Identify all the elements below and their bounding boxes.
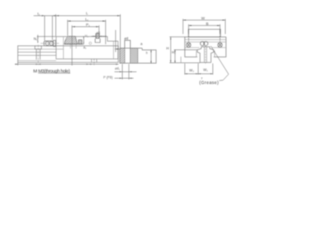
side view rail hole 2 hidden lines under block: [92, 59, 97, 65]
body mid seam lines: [185, 47, 226, 49]
svg-text:B: B: [206, 22, 209, 26]
small ext line at block lower left: [180, 57, 182, 63]
rail section outline: [120, 48, 156, 63]
P1 dimension (top row 3): [72, 25, 99, 65]
svg-text:t₂: t₂: [38, 12, 41, 16]
svg-text:W₁: W₁: [203, 68, 208, 72]
svg-text:⌀d₁: ⌀d₁: [115, 67, 121, 71]
svg-text:W: W: [201, 17, 205, 21]
grease note leader line: [211, 46, 229, 81]
right mounting hole (circle-cross): [218, 29, 222, 47]
svg-text:M: M: [33, 68, 37, 74]
svg-text:L: L: [86, 12, 88, 16]
rail cross-section profile: [197, 47, 213, 63]
H dimension (left of end view): [170, 37, 201, 63]
svg-text:W₂: W₂: [189, 68, 194, 72]
side view block body with stepped top right: [56, 37, 118, 59]
svg-text:⌀d: ⌀d: [124, 36, 128, 40]
hatched end-seal section on block top left: [64, 36, 83, 44]
svg-text:(Grease): (Grease): [199, 80, 219, 85]
side view rail groove lines: [18, 49, 64, 61]
rail hole 1 centerline: [37, 45, 39, 65]
W dimension: [183, 19, 225, 34]
side view rail counterbore hole 1: [35, 46, 42, 60]
hatched section walls: [120, 48, 125, 63]
grease nipple (horizontal, left end): [44, 40, 56, 46]
svg-text:P (P8): P (P8): [103, 75, 112, 79]
svg-text:P₁: P₁: [86, 23, 90, 27]
top small dimension t2 over nipple: [34, 15, 56, 40]
block body: [185, 37, 226, 57]
counterbore upper rect: [125, 40, 131, 48]
svg-text:H: H: [166, 47, 169, 51]
svg-text:H₂: H₂: [85, 34, 89, 38]
svg-text:⌀g: ⌀g: [96, 31, 100, 35]
L1 dimension (top row 2): [68, 20, 106, 45]
svg-text:L₁: L₁: [85, 17, 89, 21]
step height dimension: [151, 50, 152, 63]
counterbore width dimension below middle view: [115, 64, 137, 79]
H1 dimension (left of end view, shorter): [174, 50, 197, 63]
body internal seams: [185, 40, 226, 42]
block recess walls around rail: [196, 51, 214, 57]
side view rail body: [18, 46, 119, 63]
svg-text:a: a: [141, 42, 143, 46]
B dimension: [189, 24, 220, 29]
vertical grease fitting: cup: [95, 39, 100, 43]
left mounting hole (circle-cross): [186, 29, 190, 47]
vertical grease fitting on block top: tip: [96, 34, 100, 39]
svg-text:M3(through hole): M3(through hole): [38, 68, 70, 73]
top plate: [189, 29, 221, 37]
seal section height dimension H2: [83, 36, 84, 44]
gap dimension at block right: [115, 30, 124, 52]
rail bolt hole hidden lines: [204, 46, 206, 65]
grease passage hidden lines below boss: [71, 44, 77, 49]
nipple centerline to block: [41, 42, 60, 44]
svg-text:h: h: [146, 51, 148, 55]
left height dimension N1 with top reference line: [37, 35, 56, 43]
block end seal seams: [63, 37, 113, 59]
bottom chain dimension under rail: [15, 62, 119, 65]
svg-text:H₁: H₁: [172, 51, 177, 55]
L dimension (top row 1): [56, 14, 121, 48]
grease nipple end-on circles: [200, 42, 208, 46]
grease port mark on block center: [89, 42, 91, 44]
svg-text:T: T: [201, 77, 203, 81]
fitting diameter dimension: [92, 36, 107, 37]
bottom W2 W1 dimensions: [185, 63, 213, 74]
